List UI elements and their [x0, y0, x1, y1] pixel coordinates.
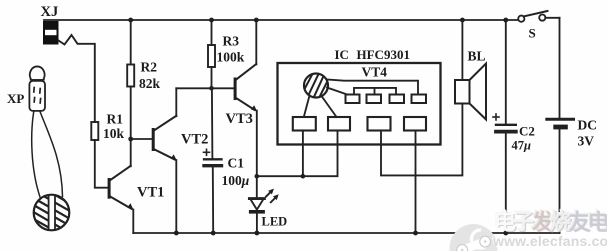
- wire VT2 collector up to node: [175, 88, 177, 116]
- node pin1 junction: [301, 174, 306, 179]
- label R2 82k: [139, 60, 161, 92]
- label C1 plus: [204, 149, 210, 155]
- label S: [529, 26, 536, 41]
- wire node to VT2 base: [131, 138, 152, 140]
- label XJ: [41, 4, 59, 20]
- label R1 10k: [103, 112, 125, 142]
- wire jack spring contact: [59, 35, 95, 122]
- transistor VT3: [234, 64, 258, 112]
- plug XP: [29, 66, 62, 197]
- wire base line of VT3: [176, 87, 234, 89]
- IC internal link disc to cell A: [327, 88, 347, 95]
- label VT1: [137, 185, 164, 201]
- transistor VT2: [152, 116, 177, 161]
- wire VT1 collector up: [130, 139, 132, 166]
- label BL: [468, 49, 486, 64]
- wire pin3 down and bus to speaker: [381, 104, 462, 176]
- resistor R3: [208, 20, 215, 88]
- IC internal link disc to pad 1: [304, 96, 310, 118]
- IC pad 4: [404, 117, 426, 131]
- label C2 47u: [512, 124, 535, 153]
- wire VT1 emitter down: [132, 210, 134, 234]
- IC cell D: [412, 95, 427, 104]
- IC cell C: [390, 95, 405, 104]
- IC U1 box: [278, 63, 441, 145]
- capacitor C2: [496, 20, 516, 233]
- node LED anode junction: [254, 174, 259, 179]
- label LED: [262, 215, 288, 229]
- label C1 100u: [222, 156, 250, 189]
- label IC HFC9301: [335, 47, 410, 62]
- label C2 plus: [493, 114, 499, 120]
- IC internal link disc to pad 2: [322, 96, 337, 117]
- wire pin2 down and bus to LED node: [257, 131, 338, 177]
- switch S: [518, 11, 559, 22]
- transistor VT1: [108, 166, 134, 210]
- wire VT2 emitter to ground rail: [175, 160, 177, 233]
- label VT3: [226, 111, 253, 127]
- plug XP contact marks: [34, 88, 41, 104]
- wire top supply rail: [44, 19, 518, 21]
- watermark text: [494, 204, 607, 236]
- IC internal hatched disc: [303, 71, 333, 101]
- wire VT3 collector to rail: [255, 20, 257, 64]
- wire bottom ground rail: [133, 232, 559, 234]
- label VT2: [181, 132, 208, 148]
- IC pad 2: [328, 117, 350, 131]
- node R3 / VT3 base / C1: [209, 86, 214, 91]
- speaker BL: [455, 20, 486, 120]
- earpiece (hatched disc): [30, 179, 76, 235]
- node dots on top rail: [128, 18, 508, 23]
- IC pad 3: [368, 117, 391, 131]
- LED: [249, 199, 265, 234]
- IC cell B: [367, 95, 382, 104]
- IC pad 1: [293, 117, 316, 131]
- capacitor C1: [204, 159, 222, 233]
- wire pin1 down: [302, 131, 304, 177]
- IC internal lower bracket cells A B C: [354, 88, 396, 95]
- jack XJ: [43, 21, 59, 45]
- wire pin4 down to ground rail: [415, 131, 417, 234]
- wire R1 to VT1 base: [95, 140, 108, 188]
- node VT1 collector / R2 / VT2 base: [128, 137, 133, 142]
- resistor R2: [127, 20, 134, 139]
- label XP: [7, 91, 24, 106]
- label R3 100k: [217, 34, 245, 65]
- battery DC: [547, 18, 574, 233]
- node dots on ground rail: [174, 231, 508, 236]
- IC cell A: [346, 95, 360, 104]
- IC internal upper bracket to VT4 cell D: [328, 80, 418, 95]
- LED arrows: [266, 189, 279, 203]
- resistor R1: [91, 122, 98, 140]
- label VT4: [362, 65, 388, 80]
- label DC 3V: [578, 118, 598, 149]
- wire VT3 emitter down to LED: [256, 111, 258, 199]
- wire R3 node down to C1: [211, 88, 214, 158]
